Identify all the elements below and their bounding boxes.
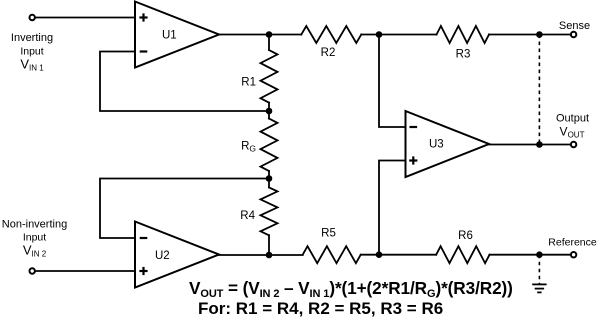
wire: U2 output to R5 bbox=[219, 254, 303, 256]
wire: U1 - input feedback down to R1 bottom node bbox=[100, 52, 269, 112]
node: RG / R4 / U2 feedback junction bbox=[266, 175, 273, 182]
label: Inverting Input VIN1 bbox=[11, 32, 53, 73]
svg-text:U1: U1 bbox=[162, 30, 177, 42]
svg-text:R6: R6 bbox=[458, 230, 473, 242]
terminal: inverting input bbox=[30, 15, 35, 20]
svg-text:R1: R1 bbox=[241, 77, 256, 89]
terminal: non-inverting input bbox=[30, 268, 35, 273]
wire: R2/R3 node down to U3 - input bbox=[379, 35, 406, 128]
resistor R5 bbox=[303, 246, 361, 263]
svg-text:U3: U3 bbox=[429, 139, 444, 151]
svg-text:VOUT = (VIN 2 – VIN 1)*(1+(2*R: VOUT = (VIN 2 – VIN 1)*(1+(2*R1/RG)*(R3/… bbox=[189, 278, 513, 300]
op-amp U3 bbox=[406, 111, 490, 177]
node: Output junction bbox=[536, 141, 543, 148]
op-amp U2 bbox=[135, 222, 219, 288]
wire: U3 output to Output terminal bbox=[489, 144, 571, 146]
label: Output VOUT bbox=[556, 113, 589, 140]
resistor R2 bbox=[301, 26, 361, 43]
resistor R6 bbox=[436, 246, 489, 263]
op-amp U1 bbox=[135, 2, 219, 68]
terminal: Output bbox=[571, 142, 576, 147]
wire: dashed Reference node to ground bbox=[538, 255, 540, 284]
svg-text:R2: R2 bbox=[321, 47, 336, 59]
resistor R3 bbox=[437, 26, 490, 43]
svg-text:Output: Output bbox=[556, 113, 589, 125]
wire: dashed Sense node to Output node bbox=[538, 35, 540, 146]
svg-text:VIN 1: VIN 1 bbox=[20, 57, 44, 73]
svg-text:VIN 2: VIN 2 bbox=[23, 243, 47, 259]
svg-text:For: R1 = R4, R2 = R5, R3 = R6: For: R1 = R4, R2 = R5, R3 = R6 bbox=[198, 299, 443, 318]
svg-text:R3: R3 bbox=[456, 49, 471, 61]
resistor RG bbox=[261, 119, 278, 172]
terminal: Sense bbox=[571, 32, 576, 37]
wire: RG/R4 node feedback to U2 - input bbox=[100, 179, 269, 239]
node: R2 / R3 / U3 - junction bbox=[376, 31, 383, 38]
node: Sense junction bbox=[536, 31, 543, 38]
wire: RG bottom lead bbox=[268, 171, 270, 187]
node: U1 output / R1 / R2 junction bbox=[266, 31, 273, 38]
svg-text:R5: R5 bbox=[321, 228, 336, 240]
svg-text:Inverting: Inverting bbox=[11, 32, 53, 44]
ground bbox=[532, 284, 546, 292]
wire: R5/R6 node up to U3 + input bbox=[379, 161, 406, 255]
resistor R1 bbox=[261, 50, 278, 103]
svg-text:Sense: Sense bbox=[559, 20, 590, 32]
terminal: Reference bbox=[571, 252, 576, 257]
svg-text:Reference: Reference bbox=[548, 237, 597, 249]
node: Reference junction bbox=[536, 251, 543, 258]
wire: U1 output to R2 bbox=[219, 34, 301, 36]
wire: R1 bottom lead bbox=[268, 103, 270, 119]
wire: R2 to R3 bbox=[361, 34, 436, 36]
node: R1 / RG / U1 feedback junction bbox=[266, 108, 273, 115]
wire: R3 to Sense terminal bbox=[489, 34, 571, 36]
wire: R5 to R6 bbox=[361, 254, 437, 256]
wire: R4 bottom lead to U2 output line bbox=[268, 235, 270, 255]
resistor R4 bbox=[261, 187, 278, 235]
wire: inverting input terminal to U1 + bbox=[35, 17, 135, 19]
wire: non-inverting input terminal to U2 + bbox=[35, 270, 135, 272]
svg-text:U2: U2 bbox=[155, 250, 170, 262]
wire: R6 to Reference terminal bbox=[490, 254, 571, 256]
label: Non-inverting Input VIN2 bbox=[2, 219, 67, 259]
svg-text:RG: RG bbox=[241, 141, 256, 154]
svg-text:Non-inverting: Non-inverting bbox=[2, 219, 67, 231]
node: R5 / R6 / U3 + junction bbox=[376, 251, 383, 258]
wire: R1 top lead from U1 output node bbox=[268, 35, 270, 51]
svg-text:VOUT: VOUT bbox=[560, 125, 585, 140]
node: R4 / U2 output / R5 junction bbox=[266, 252, 273, 259]
svg-text:R4: R4 bbox=[240, 210, 255, 222]
